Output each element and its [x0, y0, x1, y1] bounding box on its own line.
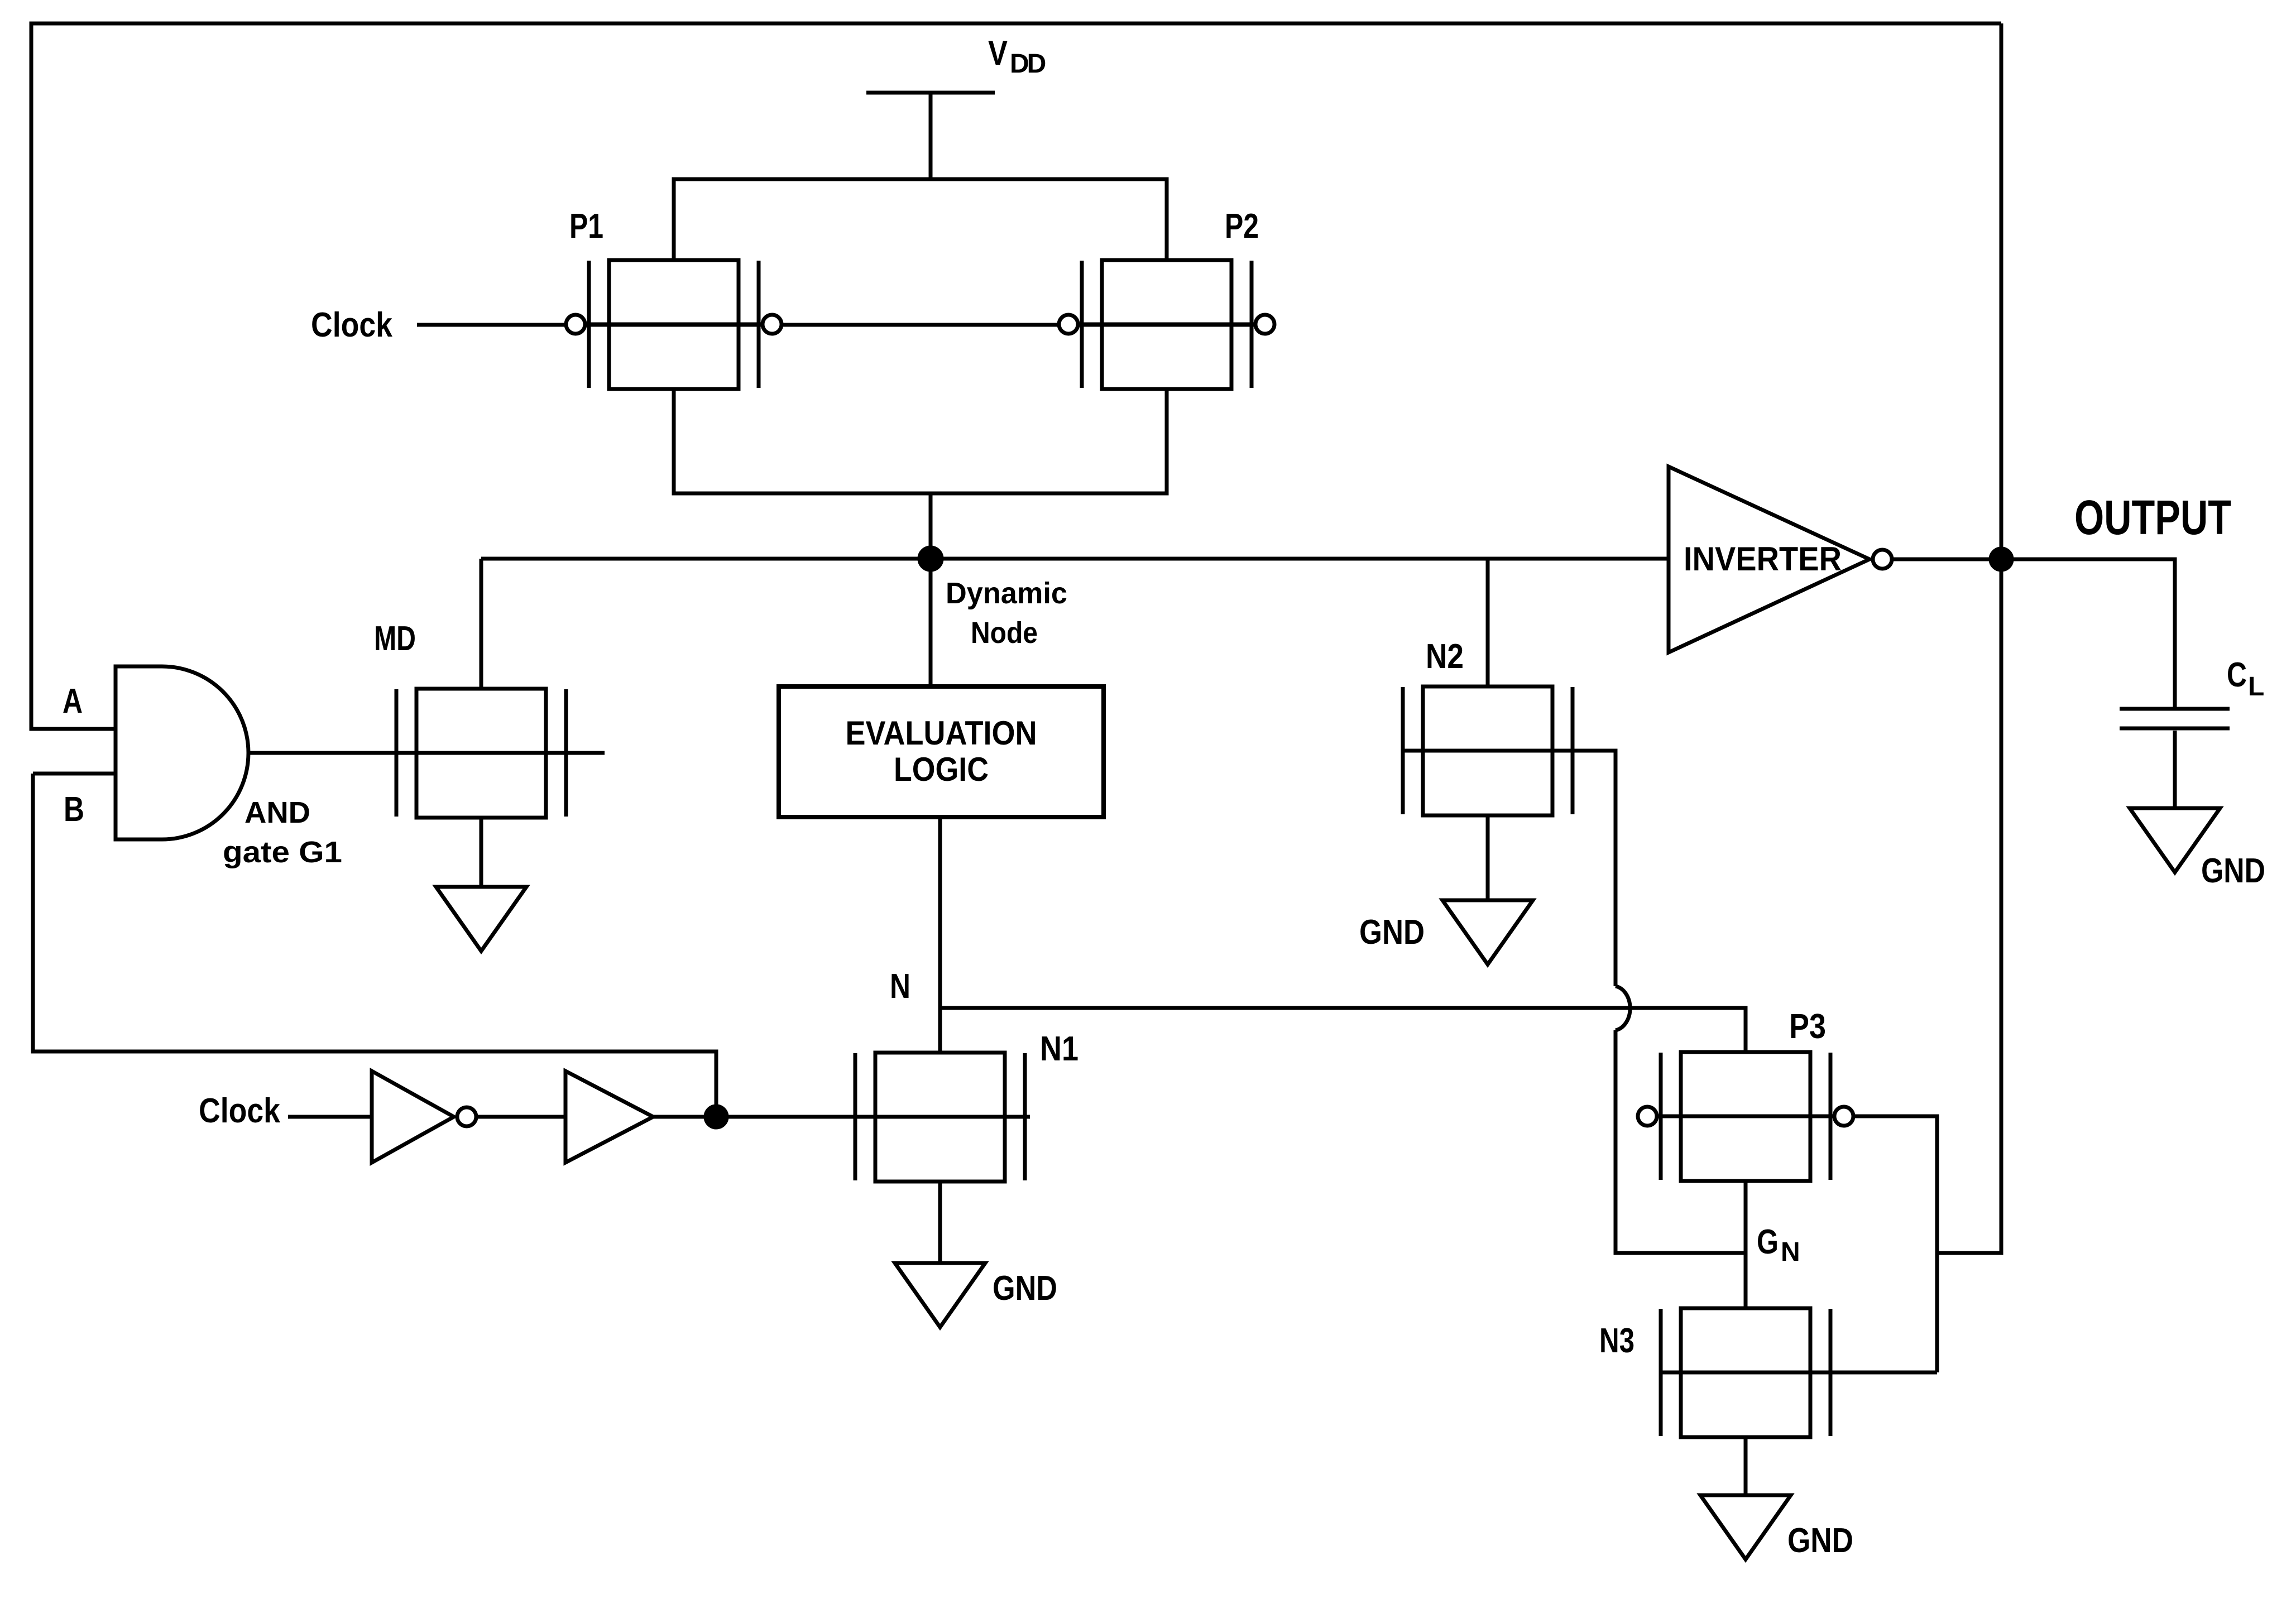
svg-text:GND: GND [1359, 913, 1425, 952]
AND gate G1 [116, 666, 248, 839]
wire: P3 gate stub down to N3 gate [1854, 1116, 1937, 1372]
svg-text:MD: MD [374, 620, 416, 658]
ground (N1) [895, 1263, 985, 1327]
svg-text:C: C [2227, 656, 2247, 694]
GND label (N3) [1787, 1521, 1853, 1560]
VDD label [988, 34, 1046, 79]
transistor MD (NMOS discharge) [248, 689, 605, 818]
Dynamic Node label [946, 577, 1067, 650]
svg-text:N1: N1 [1040, 1030, 1079, 1068]
svg-text:V: V [988, 34, 1008, 73]
svg-text:N: N [890, 967, 910, 1006]
svg-text:LOGIC: LOGIC [894, 751, 989, 788]
svg-text:N3: N3 [1599, 1322, 1634, 1360]
wire: delayed clock to N1 gate [653, 1115, 854, 1119]
svg-text:Dynamic: Dynamic [946, 577, 1067, 610]
transistor N1 (NMOS foot switch) [854, 1053, 1030, 1182]
transistor N3 (NMOS of GN inverter) [1661, 1308, 1937, 1437]
svg-text:A: A [63, 682, 83, 721]
GND label (CL) [2201, 852, 2265, 890]
transistor P2 (PMOS keeper) [1059, 260, 1274, 389]
wire: N1 source to ground [938, 1182, 942, 1263]
wire: P1/P2 source rail with source terminals [674, 179, 1167, 260]
INVERTER label [1684, 540, 1842, 578]
wire: drop from rail to dynamic node and EVALUATION LOGIC input [929, 493, 933, 686]
svg-text:N: N [1781, 1237, 1800, 1267]
svg-text:INVERTER: INVERTER [1684, 540, 1842, 578]
svg-text:DD: DD [1010, 49, 1046, 79]
svg-text:P3: P3 [1789, 1007, 1826, 1046]
svg-text:P2: P2 [1225, 207, 1259, 246]
wire: VDD stem [929, 93, 933, 179]
GND label (N1) [993, 1269, 1057, 1308]
transistor P3 label [1789, 1007, 1826, 1046]
wire: OUTPUT feedback right vertical with jog to keeper gates [1937, 23, 2001, 1253]
ground (N2) [1442, 900, 1533, 964]
Clock (bottom) label [199, 1092, 280, 1130]
transistor P3 (PMOS of GN inverter) [1638, 1052, 1853, 1181]
node: Dynamic Node junction dot [918, 546, 943, 572]
wire: P1/P2 drain rail with drain terminals [674, 388, 1167, 493]
svg-text:L: L [2248, 672, 2264, 702]
ground (MD) [436, 887, 526, 951]
svg-text:P1: P1 [569, 207, 603, 246]
capacitor CL top plate [2120, 707, 2230, 711]
svg-text:Clock: Clock [311, 306, 392, 344]
transistor N2 (NMOS keeper pulldown) [1403, 686, 1616, 815]
svg-text:B: B [64, 790, 84, 829]
AND gate G1 label [223, 796, 342, 869]
transistor P2 label [1225, 207, 1259, 246]
OUTPUT label [2074, 491, 2231, 545]
svg-text:EVALUATION: EVALUATION [846, 714, 1037, 752]
svg-text:Node: Node [971, 616, 1038, 650]
svg-text:GND: GND [993, 1269, 1057, 1308]
transistor MD label [374, 620, 416, 658]
wire: node N to P3 source [940, 1008, 1746, 1051]
wire: N2 drain drop from dynamic bus [1486, 559, 1490, 686]
svg-text:Clock: Clock [199, 1092, 280, 1130]
transistor N2 label [1426, 637, 1464, 676]
node B input wire [33, 772, 117, 776]
wire: AND output to MD gate [248, 751, 396, 755]
capacitor CL bottom plate [2120, 727, 2230, 731]
node: delayed clock junction dot [704, 1105, 728, 1129]
wire: OUTPUT feedback loop (top border, left border, to AND input A) [31, 23, 2001, 729]
wire: evaluation logic output to node N and N1 drain [938, 817, 942, 1053]
buffer (clock delay stage 2) [565, 1071, 653, 1163]
wire: dynamic node horizontal bus (MD to INVERTER) [481, 557, 1669, 561]
EVALUATION LOGIC label [846, 714, 1037, 788]
GND label (N2) [1359, 913, 1425, 952]
capacitor CL label [2227, 656, 2264, 702]
wire: MD source to ground [480, 818, 483, 887]
INVERTER [1669, 467, 1892, 652]
wire: N2 gate feedback to node GN (with hop over node N wire) [1403, 751, 1746, 1253]
node B label [64, 790, 84, 829]
Clock (top) label [311, 306, 392, 344]
node N label [890, 967, 910, 1006]
svg-text:GND: GND [2201, 852, 2265, 890]
wire: CL to ground [2173, 731, 2177, 808]
svg-text:G: G [1757, 1223, 1779, 1261]
wire: MD drain drop [480, 559, 483, 689]
node: OUTPUT junction dot [1989, 547, 2014, 572]
ground (CL) [2130, 808, 2220, 872]
power VDD bar [866, 91, 995, 95]
wire: inverter to buffer [478, 1115, 565, 1119]
svg-text:OUTPUT: OUTPUT [2074, 491, 2231, 545]
svg-text:N2: N2 [1426, 637, 1464, 676]
svg-text:GND: GND [1787, 1521, 1853, 1560]
transistor N3 label [1599, 1322, 1634, 1360]
ground (N3) [1700, 1495, 1791, 1559]
svg-text:gate G1: gate G1 [223, 835, 342, 869]
node A label [63, 682, 83, 721]
wire: inverter output to OUTPUT node [1894, 558, 2001, 561]
wire: GN node between P3 and N3 [1744, 1181, 1748, 1308]
transistor P1 label [569, 207, 603, 246]
wire: B input from delayed clock (left vertical + bottom run) [33, 774, 716, 1117]
transistor P1 (PMOS precharge) [566, 260, 782, 389]
wire: Clock gate line through P1 and P2 [417, 323, 1265, 327]
transistor N1 label [1040, 1030, 1079, 1068]
wire: N3 source to ground [1744, 1437, 1748, 1495]
inverter (clock delay stage 1) [372, 1071, 476, 1163]
wire: OUTPUT to load capacitor [2001, 559, 2175, 707]
svg-text:AND: AND [245, 796, 310, 829]
wire: clock to delay inverter [288, 1115, 372, 1119]
wire: N2 source to ground [1486, 815, 1490, 900]
EVALUATION LOGIC block [779, 686, 1104, 817]
node GN label [1757, 1223, 1800, 1267]
